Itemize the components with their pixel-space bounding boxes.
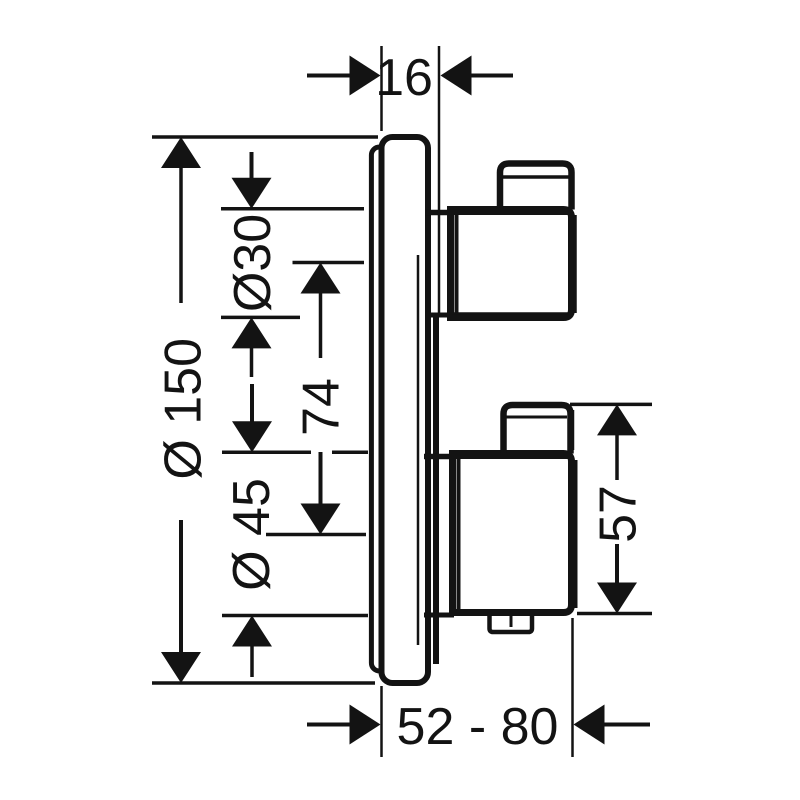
dimension D150 line upper segment and up arrow: [161, 137, 201, 303]
lower handle body: [453, 410, 576, 613]
dimension D30 bottom extension line: [221, 316, 300, 320]
dimension 57 bottom extension line: [577, 612, 652, 616]
dimension D45 bottom arrow and stub: [232, 616, 272, 678]
dimension 52-80 right extension line: [571, 618, 574, 757]
dimension 16 left leader and arrow: [307, 56, 381, 96]
dimension 74 down arrow and line: [301, 452, 341, 535]
dimension 16 right leader and arrow: [441, 56, 514, 96]
upper handle neck top line: [425, 210, 452, 216]
dome inner contour line: [417, 255, 420, 645]
upper handle body: [451, 168, 576, 318]
dimension 16 right extension line: [438, 46, 441, 313]
dimension 74 up arrow and line: [301, 263, 341, 359]
escutcheon plate front dome: [382, 137, 429, 683]
dimension 52-80 right leader and arrow: [574, 705, 651, 745]
dimension 74 bottom extension line: [266, 533, 366, 537]
dimension D150 top extension line: [152, 135, 378, 139]
svg-text:57: 57: [590, 485, 648, 543]
lower handle neck top line: [424, 454, 454, 460]
dome step contour at handle necks: [433, 313, 439, 664]
svg-text:16: 16: [375, 49, 433, 107]
dimension 57 up arrow and line: [597, 404, 637, 480]
dimension 57 down arrow and line: [597, 544, 637, 614]
dimension D45 top extension line with gap: [222, 451, 311, 455]
lower handle bottom button: [490, 613, 533, 632]
dimension D150 line lower segment and down arrow: [161, 520, 201, 683]
svg-text:Ø 150: Ø 150: [155, 338, 213, 480]
dimension D30 top extension line: [221, 207, 364, 211]
lower handle grip: [504, 405, 571, 454]
svg-text:74: 74: [293, 378, 351, 436]
dimension D30 bottom arrow and stub: [232, 317, 272, 377]
lower handle neck bottom line: [424, 613, 454, 618]
svg-text:Ø30: Ø30: [224, 214, 282, 312]
dimension D45 top arrow and stub: [232, 384, 272, 452]
dimension D150 bottom extension line: [152, 681, 375, 685]
upper handle neck bottom line: [425, 313, 452, 318]
dimension 52-80 left leader and arrow: [307, 705, 381, 745]
upper handle grip: [500, 164, 572, 210]
dimension 57 top extension line: [570, 403, 652, 407]
dimension D30 top arrow and stub: [232, 152, 272, 209]
escutcheon plate back rim: [371, 147, 391, 671]
dimension 16 left extension line: [380, 46, 383, 131]
svg-text:52 - 80: 52 - 80: [397, 698, 559, 756]
dimension 52-80 left extension line: [380, 686, 383, 757]
dimension 74 top extension line: [293, 261, 365, 265]
dimension D45 bottom extension line: [222, 614, 368, 618]
